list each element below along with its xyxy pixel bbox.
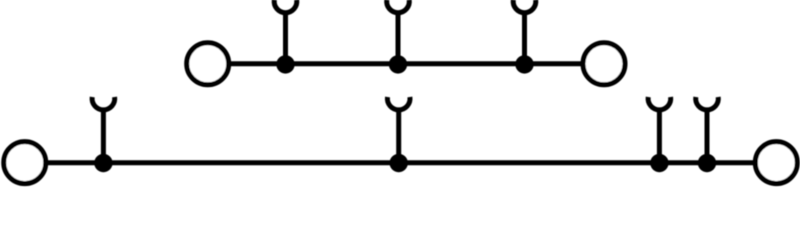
clamp terminal 3, upper rail [513,0,536,64]
junction node, lower rail clamp 2 [390,154,408,172]
clamp terminal 2, lower rail [387,97,410,163]
clamp terminal 2, upper rail [387,0,410,64]
junction node, lower rail clamp 3 [650,154,668,172]
wire: upper rail [228,61,584,66]
junction node, upper rail clamp 2 [389,55,407,73]
junction node, lower rail clamp 4 [698,154,716,172]
test socket circle, lower rail right [755,142,797,184]
clamp terminal 1, upper rail [274,0,297,64]
test socket circle, lower rail left [4,142,46,184]
junction node, upper rail clamp 3 [515,55,533,73]
clamp terminal 4, lower rail [696,97,719,163]
junction node, upper rail clamp 1 [276,55,294,73]
clamp terminal 1, lower rail [92,97,115,163]
test socket circle, upper rail right [583,43,625,85]
test socket circle, upper rail left [187,43,229,85]
clamp terminal 3, lower rail [648,97,671,163]
junction node, lower rail clamp 1 [94,154,112,172]
wire: lower rail [46,160,756,165]
